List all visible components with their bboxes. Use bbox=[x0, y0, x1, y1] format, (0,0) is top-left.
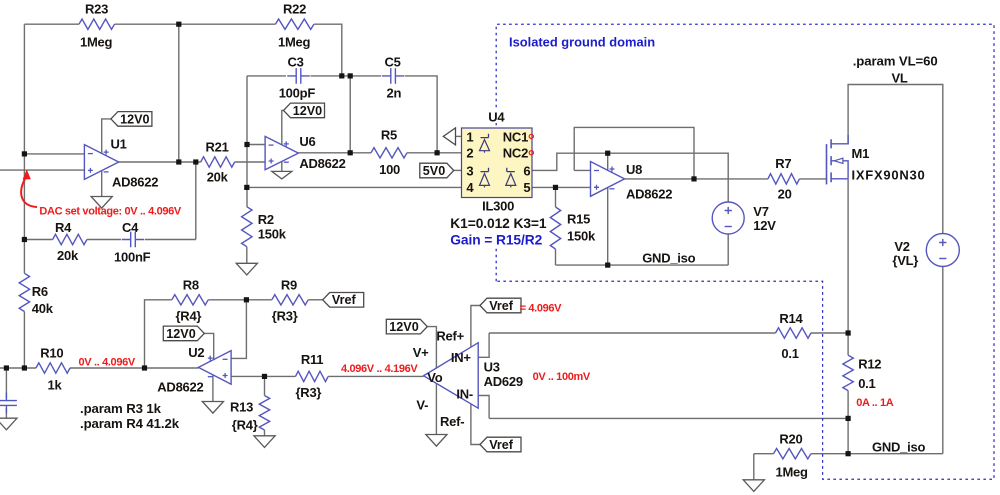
junction GND_iso bottom bbox=[846, 451, 851, 456]
junction R14 M1 source bbox=[846, 330, 851, 335]
op-amp U8 bbox=[591, 162, 625, 197]
svg-text:{R4}: {R4} bbox=[232, 418, 258, 433]
svg-text:100pF: 100pF bbox=[279, 86, 316, 101]
svg-text:= 4.096V: = 4.096V bbox=[520, 303, 563, 315]
wire U1 output bbox=[119, 161, 201, 163]
svg-text:R11: R11 bbox=[301, 352, 323, 367]
svg-text:R21: R21 bbox=[206, 140, 229, 155]
svg-text:V2: V2 bbox=[894, 239, 909, 254]
svg-text:2: 2 bbox=[466, 146, 473, 161]
svg-text:R2: R2 bbox=[258, 212, 274, 227]
capacitor C5 bbox=[382, 68, 405, 84]
svg-text:U1: U1 bbox=[111, 137, 127, 152]
flag 5V0 bbox=[420, 163, 454, 178]
wire V7 bottom bbox=[727, 234, 729, 265]
svg-text:{R4}: {R4} bbox=[176, 309, 202, 324]
svg-text:K1=0.012 K3=1: K1=0.012 K3=1 bbox=[450, 216, 547, 231]
capacitor bottom left bbox=[0, 393, 17, 414]
wire U6 output feedback vertical bbox=[349, 76, 351, 153]
svg-text:Ref-: Ref- bbox=[440, 414, 464, 429]
svg-text:0.1: 0.1 bbox=[858, 376, 875, 391]
svg-text:{R3}: {R3} bbox=[272, 309, 298, 324]
resistor R15 bbox=[550, 207, 560, 249]
wire C3 to C5 bbox=[311, 75, 382, 77]
svg-text:Vref: Vref bbox=[489, 299, 514, 313]
svg-text:U8: U8 bbox=[626, 162, 642, 177]
svg-text:2n: 2n bbox=[387, 86, 402, 101]
wire R4C4 branch vertical bbox=[195, 162, 197, 240]
resistor R9 bbox=[272, 295, 308, 305]
junction U8 V+ bbox=[605, 151, 610, 156]
resistor R13 bbox=[259, 396, 269, 431]
wire R4 left lead bbox=[24, 239, 52, 241]
wire bottom left to R10 bbox=[0, 367, 36, 369]
svg-text:40k: 40k bbox=[32, 301, 54, 316]
svg-text:IN+: IN+ bbox=[451, 350, 472, 365]
wire to U2 output bbox=[145, 367, 199, 369]
flag Vref R9 bbox=[323, 293, 364, 308]
svg-text:0.1: 0.1 bbox=[781, 346, 798, 361]
wire U3 V+ pin bbox=[427, 327, 436, 368]
junction U8 output feedback bbox=[691, 176, 696, 181]
optocoupler U4 IL300 body bbox=[462, 128, 533, 198]
text backing bbox=[449, 199, 549, 247]
svg-text:1Meg: 1Meg bbox=[776, 465, 809, 480]
ground R13 bbox=[254, 436, 275, 448]
wire GND_iso rail bbox=[556, 264, 729, 266]
wire U3 Ref- pin bbox=[471, 404, 480, 445]
svg-text:Vref: Vref bbox=[332, 293, 357, 307]
svg-text:5: 5 bbox=[523, 180, 530, 195]
svg-text:AD8622: AD8622 bbox=[299, 156, 345, 171]
svg-text:C3: C3 bbox=[288, 55, 304, 70]
wire C4 to vertical bbox=[145, 239, 196, 241]
wire U2 V+ pin bbox=[204, 333, 213, 359]
flag 12V0 U2 bbox=[163, 326, 204, 341]
ground U6 bbox=[272, 171, 292, 179]
junction U2 out node bbox=[142, 365, 147, 370]
junction R12 IN- rail bbox=[846, 416, 851, 421]
ground R20 bbox=[743, 480, 764, 492]
wire node to IL300 pin4 bbox=[247, 186, 462, 188]
NC2 open pin marker bbox=[529, 151, 533, 155]
svg-text:12V0: 12V0 bbox=[293, 104, 322, 118]
svg-text:AD8622: AD8622 bbox=[112, 175, 158, 190]
svg-text:R22: R22 bbox=[283, 2, 306, 17]
junction U1 out A bbox=[176, 159, 181, 164]
svg-text:VL: VL bbox=[892, 71, 908, 86]
svg-text:IN-: IN- bbox=[456, 387, 473, 402]
flag 12V0 U3 bbox=[386, 319, 427, 334]
junction pin5 R15 bbox=[553, 185, 558, 190]
junction U1 inv bbox=[22, 151, 27, 156]
wire U3 IN+ stub bbox=[478, 333, 489, 357]
wire R2 to ground bbox=[246, 247, 248, 264]
svg-text:GND_iso: GND_iso bbox=[642, 251, 695, 266]
svg-text:{VL}: {VL} bbox=[892, 253, 918, 268]
op-amp U3 AD629 body bbox=[424, 343, 479, 409]
wire R10 to U2 output node bbox=[70, 367, 145, 369]
svg-text:12V: 12V bbox=[753, 218, 776, 233]
svg-text:0V .. 100mV: 0V .. 100mV bbox=[533, 371, 591, 383]
wire U6 V- pin bbox=[281, 161, 283, 171]
ground U3 bbox=[426, 435, 447, 447]
svg-text:R8: R8 bbox=[183, 278, 199, 293]
svg-text:.param VL=60: .param VL=60 bbox=[853, 54, 938, 69]
wire U2 feedback up bbox=[145, 300, 172, 368]
svg-text:C4: C4 bbox=[122, 220, 139, 235]
U4 label backing bbox=[486, 110, 508, 123]
svg-text:150k: 150k bbox=[567, 229, 596, 244]
wire R7 to M1 gate bbox=[799, 178, 826, 180]
NC1 open pin marker bbox=[529, 134, 533, 138]
svg-text:R7: R7 bbox=[775, 156, 791, 171]
svg-text:AD629: AD629 bbox=[484, 374, 523, 389]
isolated ground domain boundary bbox=[496, 24, 994, 479]
resistor R7 bbox=[768, 174, 800, 184]
wire IN- rail bbox=[489, 417, 848, 419]
junction R4 left bbox=[22, 237, 27, 242]
wire IN+ rail to R14 bbox=[489, 332, 775, 334]
wire U6 V+ pin bbox=[282, 110, 284, 144]
svg-text:R12: R12 bbox=[858, 357, 881, 372]
svg-text:100nF: 100nF bbox=[114, 250, 151, 265]
wire C5 right down bbox=[405, 76, 437, 153]
LED diode U4 top bbox=[480, 134, 490, 153]
svg-text:0A .. 1A: 0A .. 1A bbox=[856, 397, 894, 409]
junction R11 R13 bbox=[262, 374, 267, 379]
svg-text:V7: V7 bbox=[753, 204, 768, 219]
svg-text:12V0: 12V0 bbox=[120, 112, 149, 126]
wire U3 Ref+ pin bbox=[471, 306, 480, 348]
voltage source V2 bbox=[926, 234, 959, 267]
svg-text:U6: U6 bbox=[299, 134, 315, 149]
svg-text:{R3}: {R3} bbox=[296, 385, 322, 400]
ground U2 bbox=[202, 402, 223, 414]
svg-text:100: 100 bbox=[379, 162, 400, 177]
junction cap tap bbox=[4, 365, 9, 370]
junction R8 R9 bbox=[244, 297, 249, 302]
wire left rail lower bbox=[23, 312, 25, 369]
wire R15 top lead bbox=[555, 187, 557, 207]
wire top rail mid bbox=[115, 23, 276, 25]
svg-text:R14: R14 bbox=[779, 311, 803, 326]
resistor R14 bbox=[776, 328, 811, 338]
flag 12V0 U6 bbox=[284, 103, 325, 118]
wire R20 to ground bbox=[753, 454, 755, 480]
wire R22 right to C3 rail bbox=[314, 24, 342, 76]
wire U1 feedback vertical bbox=[178, 24, 180, 162]
svg-text:IXFX90N30: IXFX90N30 bbox=[852, 168, 926, 183]
wire R21 to U6 bbox=[235, 161, 266, 163]
junction U6 out bbox=[348, 150, 353, 155]
svg-text:U2: U2 bbox=[188, 345, 204, 360]
wire R12 bottom bbox=[847, 391, 849, 454]
resistor R11 bbox=[296, 371, 329, 381]
svg-text:Gain = R15/R2: Gain = R15/R2 bbox=[450, 233, 542, 248]
wire top rail left bbox=[24, 23, 79, 25]
transistor M1 IXFX90N30 bbox=[827, 135, 849, 184]
svg-text:R10: R10 bbox=[40, 346, 63, 361]
wire IL300 pin6 to V+ rail bbox=[532, 153, 728, 202]
svg-text:R20: R20 bbox=[779, 432, 802, 447]
wire R20 left lead bbox=[754, 453, 774, 455]
svg-text:U3: U3 bbox=[484, 359, 500, 374]
wire DAC input to U1 bbox=[0, 169, 84, 171]
wire U2 inv input up bbox=[231, 300, 246, 359]
wire U1 V+ pin bbox=[102, 119, 111, 153]
svg-text:AD8622: AD8622 bbox=[157, 380, 203, 395]
svg-text:0V .. 4.096V: 0V .. 4.096V bbox=[79, 357, 136, 369]
svg-text:20k: 20k bbox=[207, 170, 229, 185]
wire M1 source down bbox=[847, 179, 849, 355]
svg-text:R4: R4 bbox=[55, 220, 72, 235]
wire U1 inverting input bbox=[24, 153, 84, 155]
wire R13 top lead bbox=[264, 376, 266, 395]
wire U2 V- pin bbox=[212, 375, 214, 401]
resistor R22 bbox=[275, 19, 314, 29]
svg-text:4: 4 bbox=[466, 180, 474, 195]
svg-text:C5: C5 bbox=[385, 55, 401, 70]
junction pin4 node bbox=[244, 185, 249, 190]
wire U8 feedback loop bbox=[574, 127, 694, 178]
junction U1 out B bbox=[193, 159, 198, 164]
resistor R20 bbox=[774, 449, 811, 459]
flag Vref U3 top bbox=[480, 298, 521, 313]
svg-text:NC2: NC2 bbox=[503, 146, 528, 161]
resistor R8 bbox=[172, 295, 208, 305]
resistor R2 bbox=[242, 207, 252, 247]
wire U8 output to R7 bbox=[625, 178, 768, 180]
ground U1 bbox=[91, 197, 112, 209]
wire U8 V- to GND_iso bbox=[607, 187, 609, 265]
junction R6 bottom bbox=[22, 365, 27, 370]
wire R11 to U3 Vo bbox=[328, 375, 423, 377]
svg-text:5V0: 5V0 bbox=[423, 164, 445, 178]
svg-text:R13: R13 bbox=[230, 400, 253, 415]
LED diode U4 bottom bbox=[480, 168, 490, 188]
svg-text:V-: V- bbox=[416, 398, 428, 413]
svg-text:Vref: Vref bbox=[489, 438, 514, 452]
wire IL300 pin5 to U8 bbox=[532, 186, 591, 188]
wire U8 inverting input bbox=[574, 169, 590, 171]
resistor R5 bbox=[371, 148, 407, 158]
svg-text:NC1: NC1 bbox=[503, 129, 528, 144]
capacitor C3 bbox=[287, 68, 310, 84]
wire cap branch bbox=[5, 368, 7, 398]
op-amp U1 bbox=[84, 145, 118, 180]
svg-text:R6: R6 bbox=[32, 284, 48, 299]
svg-text:R5: R5 bbox=[381, 128, 397, 143]
svg-text:12V0: 12V0 bbox=[166, 327, 195, 341]
svg-text:6: 6 bbox=[523, 163, 530, 178]
svg-text:.param R4 41.2k: .param R4 41.2k bbox=[80, 416, 180, 431]
svg-text:4.096V .. 4.196V: 4.096V .. 4.196V bbox=[341, 363, 418, 375]
ground R2 bbox=[236, 263, 257, 275]
junction U6 inv bbox=[244, 142, 249, 147]
wire left rail upper bbox=[23, 24, 25, 273]
wire V2 bottom bbox=[942, 267, 944, 454]
voltage source V7 bbox=[712, 202, 744, 234]
wire R4 to C4 bbox=[87, 239, 121, 241]
svg-text:3: 3 bbox=[466, 163, 473, 178]
wire GND_iso bottom rail bbox=[811, 453, 943, 455]
svg-text:AD8622: AD8622 bbox=[626, 187, 672, 202]
resistor R12 bbox=[843, 355, 853, 390]
wire U1 V- pin bbox=[101, 171, 103, 197]
wire port to IL300 pin1 bbox=[456, 135, 462, 137]
svg-text:R23: R23 bbox=[85, 2, 108, 17]
svg-text:20: 20 bbox=[778, 187, 792, 202]
wire R15 bottom lead bbox=[555, 249, 557, 265]
svg-text:R15: R15 bbox=[567, 212, 590, 227]
red arrow DAC bbox=[21, 176, 37, 207]
svg-text:20k: 20k bbox=[57, 248, 79, 263]
flag 12V0 U1 bbox=[111, 112, 152, 127]
wire R13 to ground bbox=[264, 430, 266, 436]
junction R5 right bbox=[435, 150, 440, 155]
junction U8 V- rail bbox=[605, 263, 610, 268]
wire R9 to Vref bbox=[308, 299, 323, 301]
svg-text:R9: R9 bbox=[281, 278, 297, 293]
svg-text:DAC set voltage: 0V .. 4.096V: DAC set voltage: 0V .. 4.096V bbox=[39, 206, 181, 218]
resistor R10 bbox=[36, 363, 70, 373]
wire U6 output to R5 bbox=[298, 152, 371, 154]
wire U2 plus input to R11 bbox=[231, 375, 295, 377]
svg-text:IL300: IL300 bbox=[482, 199, 514, 214]
wire VL rail bbox=[848, 85, 943, 235]
svg-text:U4: U4 bbox=[488, 110, 505, 125]
op-amp U6 bbox=[265, 136, 298, 169]
svg-text:12V0: 12V0 bbox=[389, 320, 418, 334]
svg-text:.param R3 1k: .param R3 1k bbox=[80, 401, 162, 416]
wire R8 to R9 bbox=[208, 299, 272, 301]
svg-text:150k: 150k bbox=[258, 227, 287, 242]
port arrow pin1 bbox=[443, 128, 455, 145]
op-amp U2 bbox=[198, 351, 231, 385]
resistor R4 bbox=[53, 234, 87, 244]
svg-text:Isolated ground domain: Isolated ground domain bbox=[509, 35, 655, 50]
svg-text:1: 1 bbox=[466, 129, 473, 144]
svg-text:Ref+: Ref+ bbox=[436, 329, 464, 344]
svg-text:M1: M1 bbox=[852, 146, 870, 161]
wire R5 to IL300 pin2 bbox=[407, 152, 462, 154]
wire cap to ground bbox=[5, 408, 7, 418]
resistor R6 bbox=[19, 273, 29, 311]
wire U3 IN- stub bbox=[478, 396, 489, 419]
wire C3 rail left bbox=[247, 75, 286, 77]
svg-text:1Meg: 1Meg bbox=[80, 35, 113, 50]
resistor R21 bbox=[201, 157, 235, 167]
wire R14 right lead bbox=[811, 332, 848, 334]
capacitor C4 bbox=[122, 232, 145, 248]
wire mid rail x247 bbox=[246, 76, 248, 207]
svg-text:V+: V+ bbox=[413, 345, 429, 360]
resistor R23 bbox=[79, 19, 115, 29]
flag Vref U3 bottom bbox=[480, 437, 521, 452]
wire U8 V+ pin bbox=[607, 153, 609, 170]
svg-text:1k: 1k bbox=[48, 378, 63, 393]
junction C3 rail A bbox=[339, 73, 344, 78]
wire U6 inverting input bbox=[247, 144, 265, 146]
svg-text:1Meg: 1Meg bbox=[278, 35, 311, 50]
junction feedback top bbox=[176, 22, 181, 27]
svg-text:GND_iso: GND_iso bbox=[872, 440, 925, 455]
photodiode U4 bbox=[506, 168, 516, 188]
wire 5V0 to IL300 pin3 bbox=[454, 169, 462, 171]
ground bottom left bbox=[0, 418, 17, 430]
wire U3 V- pin bbox=[435, 383, 437, 434]
svg-text:Vo: Vo bbox=[427, 370, 442, 385]
junction C3 rail B bbox=[348, 73, 353, 78]
